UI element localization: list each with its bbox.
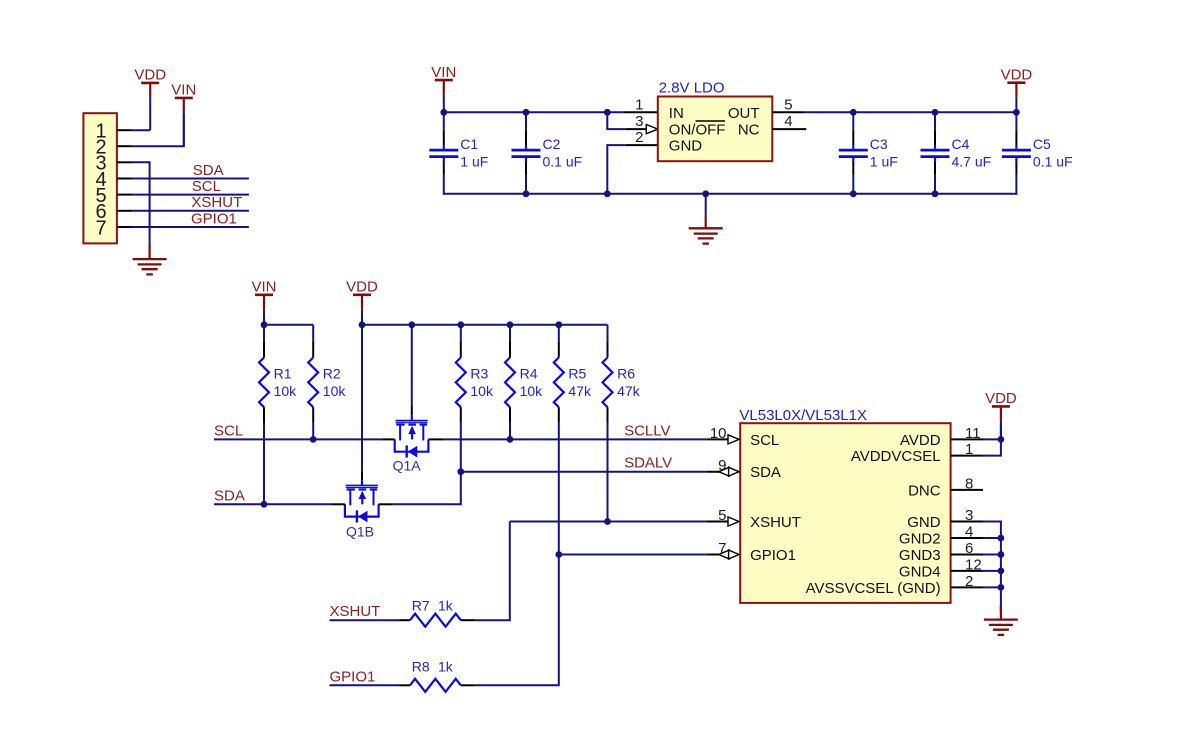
power symbol VIN (pull-ups)	[251, 279, 276, 325]
junction C3 top	[850, 109, 857, 116]
svg-text:GPIO1: GPIO1	[191, 210, 237, 227]
svg-text:C1: C1	[460, 136, 478, 152]
regulator U2 box 2.8V LDO	[658, 97, 773, 162]
resistor R2 10k (SCL pull-up)	[308, 325, 346, 440]
svg-text:2: 2	[965, 573, 973, 590]
IC pin 12 GND4	[899, 556, 983, 580]
svg-text:1: 1	[965, 441, 973, 458]
pin number 4 (LDO NC)	[784, 113, 792, 130]
wire pin2 to VIN	[132, 114, 184, 146]
junction R3/SDALV	[457, 468, 464, 475]
power symbol VDD (pull-ups)	[346, 279, 378, 325]
svg-text:DNC: DNC	[908, 482, 941, 499]
power symbol VIN (connector)	[171, 82, 196, 147]
svg-text:C3: C3	[870, 136, 888, 152]
wire R8 to GPIO1 net	[475, 555, 559, 686]
IC pin 6 GND3	[899, 540, 983, 564]
svg-text:C2: C2	[543, 136, 561, 152]
junction GND4	[998, 568, 1005, 575]
svg-text:47k: 47k	[568, 383, 592, 399]
pin name IN	[669, 105, 684, 122]
pin stub LDO pin4 NC	[772, 128, 806, 130]
svg-text:12: 12	[965, 556, 982, 573]
wire bottom bus (LDO)	[444, 193, 1017, 195]
svg-text:GND2: GND2	[899, 531, 941, 548]
pin stub R7 left	[400, 619, 411, 621]
svg-text:C5: C5	[1033, 136, 1051, 152]
wire GND pins to ground	[983, 522, 1001, 614]
junction GND3	[998, 551, 1005, 558]
wire pin1 to VDD	[132, 129, 151, 131]
wire net GPIO1 (connector pin7)	[132, 226, 249, 228]
svg-text:SDALV: SDALV	[624, 455, 672, 472]
wire GND3 link	[983, 554, 1001, 556]
svg-text:SDA: SDA	[750, 464, 781, 481]
svg-text:AVSSVCSEL (GND): AVSSVCSEL (GND)	[806, 580, 941, 597]
transistor Q1B	[331, 325, 393, 540]
svg-text:SCL: SCL	[750, 432, 779, 449]
IC pin 2 AVSSVCSEL (GND)	[806, 573, 983, 597]
wire net GPIO1 to IC	[559, 554, 707, 556]
connector J1 pin stubs	[117, 130, 132, 227]
net label SCLLV	[624, 422, 670, 439]
junction R1/SDA	[261, 501, 268, 508]
svg-text:8: 8	[965, 475, 973, 492]
pin name OUT	[728, 105, 760, 122]
svg-text:2.8V LDO: 2.8V LDO	[659, 79, 725, 96]
svg-text:10: 10	[710, 425, 727, 442]
svg-text:3: 3	[635, 113, 643, 130]
svg-text:VDD: VDD	[346, 279, 378, 296]
svg-text:5: 5	[718, 507, 726, 524]
svg-text:VIN: VIN	[251, 279, 276, 296]
net label SCL (connector)	[192, 178, 221, 195]
wire VDD output bus	[804, 111, 1016, 113]
capacitor C3 1 uF	[839, 112, 898, 195]
wire AVDDVCSEL to VDD	[983, 424, 1001, 456]
svg-text:IN: IN	[669, 105, 684, 122]
pin stub LDO pin5 OUT	[772, 111, 804, 113]
pin stub R8 left	[400, 684, 411, 686]
svg-text:Q1B: Q1B	[346, 524, 374, 540]
net label SDA	[214, 487, 245, 504]
power symbol VDD (IC)	[985, 390, 1017, 440]
svg-text:3: 3	[965, 507, 973, 524]
svg-text:6: 6	[965, 540, 973, 557]
wire pin3 to ground	[132, 162, 150, 249]
capacitor C5 0.1 uF	[1002, 112, 1073, 195]
junction C2 bottom	[523, 190, 530, 197]
svg-text:1: 1	[635, 96, 643, 113]
capacitor C4 4.7 uF	[921, 112, 992, 195]
wire Q1B drain to SDALV	[393, 472, 461, 505]
svg-text:SCLLV: SCLLV	[624, 422, 670, 439]
label 2.8V LDO title	[659, 79, 725, 96]
svg-text:7: 7	[95, 217, 106, 239]
svg-text:Q1A: Q1A	[393, 458, 422, 474]
svg-text:AVDDVCSEL: AVDDVCSEL	[851, 448, 941, 465]
junction R2/SCL	[310, 436, 317, 443]
pin stub LDO pin3 ON/OFF	[626, 128, 647, 130]
svg-text:GPIO1: GPIO1	[330, 668, 376, 685]
wire net XSHUT (connector pin6)	[132, 210, 249, 212]
pin stub R8 right	[461, 684, 475, 686]
junction R3 top	[457, 321, 464, 328]
junction C3 bottom	[850, 190, 857, 197]
svg-text:VDD: VDD	[1001, 67, 1033, 84]
junction R5 top	[555, 321, 562, 328]
overline on OFF	[696, 120, 726, 122]
net label GPIO1 (connector)	[191, 210, 237, 227]
net label XSHUT (connector)	[191, 194, 242, 211]
svg-text:R7: R7	[412, 598, 430, 614]
svg-text:AVDD: AVDD	[900, 432, 941, 449]
IC pin 5 XSHUT	[707, 507, 801, 531]
svg-text:9: 9	[718, 457, 726, 474]
junction C4 bottom	[932, 190, 939, 197]
junction C2 top	[523, 109, 530, 116]
wire XSHUT left	[330, 619, 400, 621]
capacitor C1 1 uF	[429, 112, 488, 195]
svg-text:VDD: VDD	[134, 67, 166, 84]
svg-text:VIN: VIN	[171, 82, 196, 99]
svg-text:5: 5	[784, 96, 792, 113]
ground (connector)	[133, 245, 167, 274]
junction R5/GPIO1	[555, 551, 562, 558]
junction AVDD/VDD	[998, 436, 1005, 443]
svg-text:47k: 47k	[617, 383, 641, 399]
junction Q1A gate	[408, 321, 415, 328]
IC pin 3 GND	[907, 507, 983, 531]
svg-text:VDD: VDD	[985, 390, 1017, 407]
junction GND2	[998, 535, 1005, 542]
resistor R6 47k (XSHUT pull-up)	[603, 325, 641, 522]
pin number 1 (LDO IN)	[635, 96, 643, 113]
svg-text:1 uF: 1 uF	[460, 154, 488, 170]
wire net SCL	[214, 438, 381, 440]
wire net SCL (connector pin5)	[132, 194, 249, 196]
junction AVSSVCSEL	[998, 584, 1005, 591]
IC U1 box	[740, 423, 950, 603]
svg-text:R3: R3	[470, 365, 488, 381]
net label SCL	[214, 422, 243, 439]
pin number 5 (LDO OUT)	[784, 96, 792, 113]
svg-text:ON/OFF: ON/OFF	[669, 122, 726, 139]
resistor R7 1k	[410, 598, 461, 627]
wire VIN pull-up bus	[264, 324, 313, 326]
svg-text:VIN: VIN	[431, 64, 456, 81]
pin name NC	[738, 122, 760, 139]
pin stub LDO pin2 GND	[626, 144, 658, 146]
wire net SCLLV	[443, 438, 707, 440]
svg-text:R8: R8	[412, 659, 430, 675]
pin number 2 (LDO GND)	[635, 129, 643, 146]
wire AVSSVCSEL link	[983, 586, 1001, 588]
connector J1 box	[83, 113, 117, 243]
junction R6/XSHUT	[604, 518, 611, 525]
capacitor C2 0.1 uF	[512, 112, 583, 195]
resistor R3 10k (SDALV pull-up)	[456, 325, 494, 472]
junction R4/SCLLV	[507, 436, 514, 443]
junction VDD bus	[359, 321, 366, 328]
svg-text:R4: R4	[520, 365, 538, 381]
power symbol VDD (connector)	[134, 67, 166, 131]
power symbol VDD (LDO output)	[1001, 67, 1033, 113]
wire net SDA (connector pin4)	[132, 178, 249, 180]
wire VDD pull-up bus	[362, 324, 608, 326]
junction VDD/C5 top	[1013, 109, 1020, 116]
resistor R5 47k (GPIO1 pull-up)	[554, 325, 592, 555]
IC pin 4 GND2	[899, 524, 983, 548]
ground (IC)	[984, 606, 1018, 635]
svg-text:10k: 10k	[274, 383, 298, 399]
IC pin 10 SCL	[707, 425, 780, 449]
svg-text:1k: 1k	[438, 598, 454, 614]
svg-text:SDA: SDA	[214, 487, 245, 504]
arrow LDO pin3 input	[646, 125, 658, 134]
svg-text:VL53L0X/VL53L1X: VL53L0X/VL53L1X	[739, 407, 867, 424]
IC pin 9 SDA	[707, 457, 781, 481]
junction VIN/R1	[261, 321, 268, 328]
svg-text:SCL: SCL	[214, 422, 243, 439]
net label SDALV	[624, 455, 672, 472]
svg-text:2: 2	[635, 129, 643, 146]
wire GND4 link	[983, 570, 1001, 572]
wire to LDO ON/OFF pin3	[607, 112, 625, 129]
IC pin 1 AVDDVCSEL	[851, 441, 983, 465]
power symbol VIN (LDO input)	[431, 64, 456, 112]
svg-text:XSHUT: XSHUT	[191, 194, 242, 211]
wire GND2 link	[983, 537, 1001, 539]
ground (LDO)	[689, 194, 723, 244]
svg-text:NC: NC	[738, 122, 760, 139]
svg-text:GND4: GND4	[899, 563, 941, 580]
svg-text:4: 4	[965, 524, 973, 541]
svg-text:4: 4	[784, 113, 792, 130]
label VL53L0X/VL53L1X title	[739, 407, 867, 424]
svg-text:GND: GND	[669, 138, 703, 155]
svg-text:XSHUT: XSHUT	[750, 514, 801, 531]
resistor R1 10k (SDA pull-up)	[259, 325, 297, 505]
svg-text:10k: 10k	[470, 383, 494, 399]
svg-text:GND3: GND3	[899, 547, 941, 564]
wire VIN top bus	[444, 111, 624, 113]
wire net SDA	[214, 503, 331, 505]
transistor Q1A	[381, 325, 443, 474]
pin stub LDO pin1 IN	[624, 111, 658, 113]
svg-text:SCL: SCL	[192, 178, 221, 195]
junction VIN/C1	[440, 109, 447, 116]
svg-text:R6: R6	[617, 365, 635, 381]
IC pin 7 GPIO1	[707, 540, 796, 564]
pin name ON/OFF	[669, 122, 726, 139]
svg-text:11: 11	[965, 425, 981, 442]
svg-text:SDA: SDA	[193, 162, 224, 179]
svg-text:R1: R1	[274, 365, 292, 381]
wire net XSHUT to IC	[510, 521, 707, 523]
net label XSHUT (lower)	[330, 603, 381, 620]
net label GPIO1 (lower)	[330, 668, 376, 685]
junction ground tap	[702, 190, 709, 197]
resistor R8 1k	[410, 659, 461, 692]
pin name GND (LDO)	[669, 138, 703, 155]
svg-text:7: 7	[718, 540, 726, 557]
IC pin 11 AVDD	[900, 425, 983, 449]
svg-text:0.1 uF: 0.1 uF	[543, 154, 583, 170]
junction C4 top	[932, 109, 939, 116]
wire AVDD to VDD	[983, 438, 1001, 440]
svg-text:R5: R5	[568, 365, 586, 381]
svg-text:C4: C4	[952, 136, 970, 152]
wire LDO GND to bottom bus	[607, 145, 625, 195]
svg-text:10k: 10k	[323, 383, 347, 399]
svg-text:4.7 uF: 4.7 uF	[952, 154, 992, 170]
svg-text:OUT: OUT	[728, 105, 760, 122]
svg-text:10k: 10k	[520, 383, 544, 399]
wire GPIO1 left	[330, 684, 400, 686]
IC pin 8 DNC	[908, 475, 983, 499]
pin number 3 (LDO ON/OFF)	[635, 113, 643, 130]
svg-text:XSHUT: XSHUT	[330, 603, 381, 620]
connector J1 pin numbers 1-7	[95, 121, 106, 240]
svg-text:GPIO1: GPIO1	[750, 547, 796, 564]
svg-text:1k: 1k	[438, 659, 454, 675]
pin stub R7 right	[461, 619, 475, 621]
junction LDO ON/OFF branch	[604, 109, 611, 116]
wire net SDALV	[461, 471, 707, 473]
svg-text:R2: R2	[323, 365, 341, 381]
svg-text:GND: GND	[907, 514, 941, 531]
wire R7 to XSHUT net	[475, 522, 510, 621]
junction R4 top	[507, 321, 514, 328]
svg-text:1 uF: 1 uF	[870, 154, 898, 170]
resistor R4 10k (SCLLV pull-up)	[505, 325, 543, 440]
junction GND branch bottom	[604, 190, 611, 197]
net label SDA (connector)	[193, 162, 224, 179]
svg-text:0.1 uF: 0.1 uF	[1033, 154, 1073, 170]
